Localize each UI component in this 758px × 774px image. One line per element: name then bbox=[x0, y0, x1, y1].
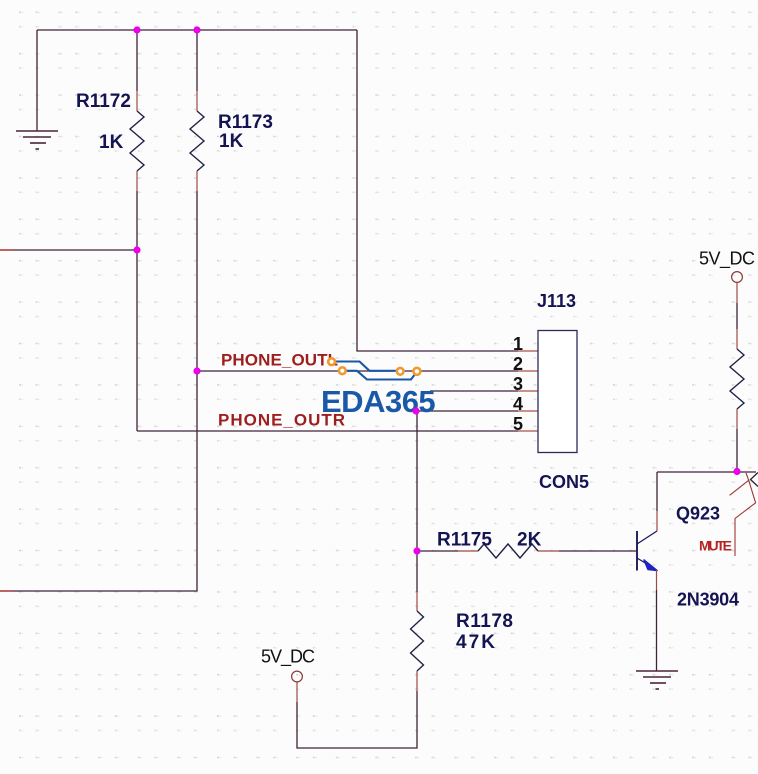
wire: pin1 net from top to connector bbox=[357, 30, 518, 351]
svg-text:R1178: R1178 bbox=[456, 611, 513, 632]
EDA365 logo trace lower bbox=[344, 371, 417, 380]
transistor Q923 collector pin bbox=[656, 511, 658, 531]
resistor R1172 pin top bbox=[136, 91, 138, 111]
wire: x=137 down to PHONE_OUTR row bbox=[136, 191, 138, 431]
svg-text:R1175: R1175 bbox=[437, 530, 492, 551]
svg-text:5V_DC: 5V_DC bbox=[261, 647, 315, 668]
svg-text:1K: 1K bbox=[99, 132, 124, 153]
pull-up resistor pin top bbox=[736, 329, 738, 349]
svg-text:CON5: CON5 bbox=[539, 472, 589, 492]
svg-text:J113: J113 bbox=[537, 291, 576, 311]
wire: pin3 stub bbox=[430, 390, 518, 392]
svg-text:2K: 2K bbox=[517, 530, 542, 551]
resistor R1175 body bbox=[478, 544, 538, 558]
wire: resistor to collector node bbox=[736, 429, 738, 472]
transistor emitter pin bbox=[656, 570, 658, 590]
EDA365 pad ring 4 bbox=[413, 368, 420, 375]
svg-text:3: 3 bbox=[513, 374, 523, 394]
svg-text:1K: 1K bbox=[219, 131, 244, 152]
junction at (137,250) bbox=[133, 246, 140, 253]
junction at (737,471.5) bbox=[733, 468, 740, 475]
wire: vertical net at x=197 (R1173 branch) bbox=[196, 30, 198, 91]
wire: junction to R1175 bbox=[417, 550, 458, 552]
wire: x=197 down to bottom-left exit bbox=[0, 191, 197, 591]
resistor R1173 pin bottom bbox=[196, 171, 198, 191]
svg-text:2: 2 bbox=[513, 354, 523, 374]
power pin stub bottom 5V_DC bbox=[296, 682, 298, 702]
transistor emitter arrow bbox=[644, 560, 657, 571]
svg-text:1: 1 bbox=[513, 334, 523, 354]
svg-text:Q923: Q923 bbox=[676, 504, 720, 524]
svg-text:R1172: R1172 bbox=[76, 91, 131, 112]
power port circle 5V_DC (top) bbox=[732, 272, 743, 283]
pull-up resistor body bbox=[730, 349, 744, 409]
resistor R1178 body bbox=[411, 611, 424, 671]
connector J113 body bbox=[538, 331, 577, 453]
junction at (416,411) bbox=[412, 407, 419, 414]
resistor R1172 body bbox=[130, 111, 144, 171]
svg-text:47K: 47K bbox=[456, 632, 495, 653]
wire: R1175 to Q923 base bbox=[559, 550, 636, 552]
wire: collector vertical bbox=[656, 472, 658, 511]
ground symbol (emitter) bbox=[636, 671, 678, 689]
svg-text:PHONE_OUTL: PHONE_OUTL bbox=[221, 351, 338, 370]
junction at (197,30) bbox=[193, 26, 200, 33]
wire: top-left vertical to ground bbox=[36, 30, 38, 131]
pull-up resistor pin bottom bbox=[736, 409, 738, 429]
wire: top horizontal net bbox=[37, 29, 357, 31]
wire end marker left y=250 bbox=[0, 249, 13, 251]
connector J113 pins 1-5 bbox=[518, 351, 538, 431]
resistor R1175 pin right bbox=[538, 550, 559, 552]
junction at (137,30) bbox=[133, 26, 140, 33]
wire: pin4 vertical to R1178 bbox=[416, 551, 418, 592]
wire: collector node horizontal bbox=[657, 471, 756, 473]
svg-text:R1173: R1173 bbox=[218, 112, 273, 133]
svg-text:4: 4 bbox=[513, 394, 523, 414]
resistor R1178 pin top bbox=[416, 592, 418, 611]
wire: emitter to ground bbox=[656, 590, 658, 671]
EDA365 pad ring 1 bbox=[328, 358, 335, 365]
wire: R1178 bottom loop to 5V_DC bbox=[297, 691, 417, 748]
transistor Q923 symbol bbox=[637, 531, 657, 571]
EDA365 pad ring 3 bbox=[397, 368, 404, 375]
junction at (417,551) bbox=[413, 547, 420, 554]
wire: PHONE_OUTR net (pin5) bbox=[137, 430, 518, 432]
svg-text:MUTE: MUTE bbox=[699, 538, 732, 554]
off-page chevron at right edge bbox=[751, 473, 758, 487]
wire: 5V_DC to pull-up resistor bbox=[736, 303, 738, 329]
wire: left entry at y=250 bbox=[0, 249, 137, 251]
resistor R1172 pin bottom bbox=[136, 171, 138, 191]
red annotation scribble bbox=[730, 473, 756, 556]
svg-text:5: 5 bbox=[513, 414, 523, 434]
power port circle 5V_DC (bottom) bbox=[292, 671, 303, 682]
resistor R1173 body bbox=[190, 111, 204, 171]
wire: vertical net at x=137 (R1172 branch) bbox=[136, 30, 138, 91]
svg-text:2N3904: 2N3904 bbox=[677, 590, 739, 610]
resistor R1173 pin top bbox=[196, 91, 198, 111]
wire: pin4 net to lower circuit bbox=[417, 411, 518, 551]
wire end marker left y=591 bbox=[0, 590, 13, 592]
junction at (197,371) bbox=[193, 367, 200, 374]
EDA365 logo trace upper bbox=[334, 362, 397, 371]
wire: PHONE_OUTL net (pin2) bbox=[197, 370, 518, 372]
svg-text:5V_DC: 5V_DC bbox=[699, 249, 755, 270]
resistor R1178 pin bottom bbox=[416, 671, 418, 691]
power pin stub top 5V_DC bbox=[736, 283, 738, 303]
EDA365 pad ring 2 bbox=[339, 367, 346, 374]
ground symbol (top-left) bbox=[16, 131, 58, 149]
resistor R1175 pin left bbox=[458, 550, 478, 552]
